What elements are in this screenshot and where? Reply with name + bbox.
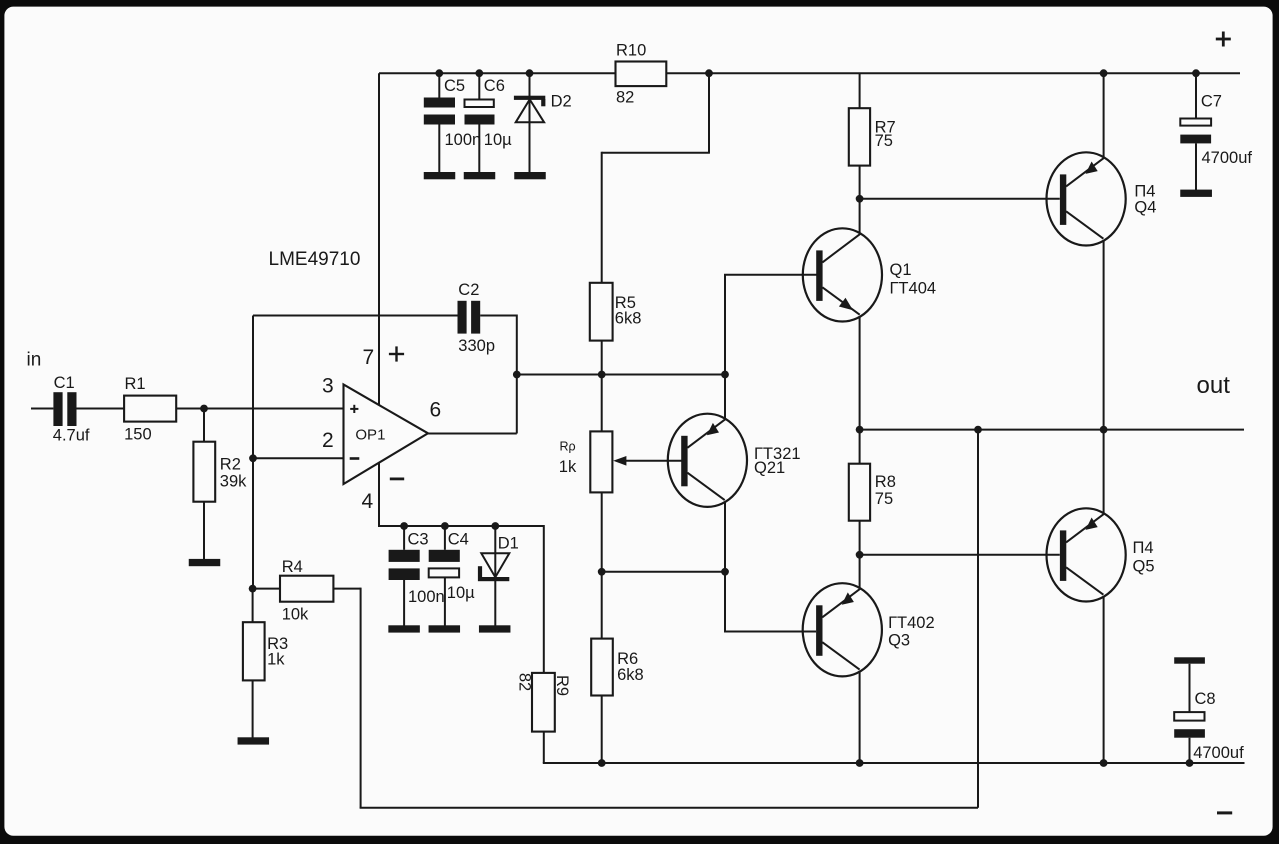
wire R3 to ground bbox=[252, 680, 254, 738]
wire rail to C5 bbox=[438, 73, 440, 97]
svg-text:C8: C8 bbox=[1195, 690, 1216, 708]
wire Q21 collector bbox=[724, 375, 726, 420]
svg-text:4.7uf: 4.7uf bbox=[53, 427, 90, 445]
capacitor C4 bbox=[429, 531, 475, 603]
capacitor C5 bbox=[424, 77, 481, 149]
node Rp bottom row left bbox=[598, 568, 606, 576]
svg-text:R10: R10 bbox=[616, 42, 646, 60]
resistor R2 bbox=[193, 442, 247, 502]
svg-text:R1: R1 bbox=[125, 375, 146, 393]
in label bbox=[27, 350, 42, 371]
svg-text:Q1: Q1 bbox=[890, 261, 912, 279]
svg-text:D1: D1 bbox=[498, 535, 519, 553]
svg-text:150: 150 bbox=[124, 426, 152, 444]
node Q21 collector junction bbox=[721, 371, 729, 379]
wire rail to R7 bbox=[859, 73, 861, 108]
ground below C4 bbox=[429, 625, 461, 632]
transistor Q1 bbox=[803, 228, 936, 321]
resistor R9 bbox=[516, 673, 572, 732]
svg-text:D2: D2 bbox=[551, 93, 572, 111]
wire rail branch to R5 bbox=[602, 73, 710, 283]
supply bar above C8 bbox=[1174, 657, 1205, 663]
ground below C7 bbox=[1180, 190, 1212, 197]
svg-text:C6: C6 bbox=[484, 77, 505, 95]
node Q4 out bbox=[1100, 426, 1108, 434]
wire node to R4 bbox=[253, 588, 280, 590]
svg-text:LME49710: LME49710 bbox=[269, 249, 361, 270]
svg-text:6k8: 6k8 bbox=[617, 666, 644, 684]
node C3 bbox=[400, 522, 408, 530]
wire bias row bbox=[602, 571, 725, 573]
svg-text:Q4: Q4 bbox=[1134, 199, 1156, 217]
svg-text:in: in bbox=[27, 350, 42, 371]
svg-text:7: 7 bbox=[363, 346, 375, 369]
transistor Q21 bbox=[668, 414, 801, 507]
wire rail to C7 bbox=[1195, 73, 1197, 118]
svg-text:1k: 1k bbox=[559, 458, 577, 476]
wire node to R2 bbox=[203, 409, 205, 442]
op-amp - input mark bbox=[350, 457, 360, 460]
ground below C6 bbox=[464, 172, 496, 179]
node Q1 emitter out bbox=[856, 426, 864, 434]
node R6 on negative rail bbox=[598, 759, 606, 767]
transistor Q3 bbox=[803, 583, 935, 676]
node R7 bottom bbox=[856, 195, 864, 203]
wire R5 to output node bbox=[601, 341, 603, 375]
node C7 on rail bbox=[1192, 69, 1200, 77]
wire Q21 collector to Q1 base bbox=[724, 275, 817, 375]
transistor Q5 bbox=[1047, 508, 1155, 601]
svg-text:ГТ404: ГТ404 bbox=[890, 280, 937, 298]
wire out line bbox=[860, 429, 1244, 431]
wire C8 to negative rail bbox=[1189, 738, 1191, 763]
wire positive rail right bbox=[666, 72, 1240, 74]
svg-text:ГТ402: ГТ402 bbox=[888, 614, 935, 632]
resistor R10 bbox=[616, 42, 667, 107]
pin 6 label bbox=[430, 399, 442, 422]
capacitor C8 bbox=[1174, 690, 1244, 762]
svg-text:100n: 100n bbox=[445, 131, 482, 149]
op-amp U1 label bbox=[269, 249, 361, 270]
wire pin4 supply bbox=[378, 463, 380, 527]
svg-text:OP1: OP1 bbox=[355, 427, 385, 444]
resistor R7 bbox=[849, 108, 896, 165]
wire pin6 output bbox=[428, 375, 517, 434]
node R1-R2 junction bbox=[200, 405, 208, 413]
ground below R3 bbox=[238, 737, 269, 744]
svg-text:75: 75 bbox=[875, 132, 893, 150]
wire to Q5 base bbox=[860, 554, 1060, 556]
resistor R3 bbox=[243, 622, 288, 680]
node R5 bottom bbox=[598, 371, 606, 379]
wire node to R3 bbox=[252, 589, 254, 623]
svg-text:R2: R2 bbox=[220, 456, 241, 474]
pin 2 label bbox=[322, 429, 334, 452]
potentiometer Rp bbox=[559, 431, 613, 492]
svg-text:out: out bbox=[1197, 372, 1231, 399]
svg-text:10µ: 10µ bbox=[484, 131, 512, 149]
capacitor C1 bbox=[53, 374, 90, 445]
wire R7 to Q1 bbox=[859, 166, 861, 234]
V- supply mark bbox=[390, 478, 404, 481]
node D1 bbox=[491, 522, 499, 530]
node bias row right bbox=[721, 568, 729, 576]
wire Q5 to negative rail bbox=[1103, 596, 1105, 763]
wire R9 to negative rail bbox=[543, 732, 1245, 763]
wire R7 node to Q4 base bbox=[860, 198, 1060, 200]
wire bar to C8 bbox=[1189, 664, 1191, 712]
svg-text:4700uf: 4700uf bbox=[1193, 744, 1244, 762]
resistor R6 bbox=[591, 639, 644, 696]
node output junction bbox=[513, 371, 521, 379]
svg-text:39k: 39k bbox=[220, 473, 247, 491]
wiper arrow Rp bbox=[613, 456, 683, 466]
wire R2 to ground bbox=[203, 502, 205, 560]
wire feedback column bbox=[252, 316, 254, 589]
capacitor C6 bbox=[465, 77, 513, 149]
svg-text:C1: C1 bbox=[54, 374, 75, 392]
svg-text:4700uf: 4700uf bbox=[1202, 149, 1253, 167]
wire input stub bbox=[31, 408, 53, 410]
node C4 bbox=[441, 522, 449, 530]
node rail branch bbox=[705, 69, 713, 77]
wire R1 to opamp pin3 bbox=[176, 408, 343, 410]
svg-text:3: 3 bbox=[322, 375, 334, 398]
pin 7 label bbox=[363, 346, 375, 369]
wire Q21 emitter bbox=[724, 502, 726, 572]
wire R6 to negative rail bbox=[601, 696, 603, 764]
wire to D1 bbox=[494, 526, 496, 627]
node C6 on rail bbox=[475, 69, 483, 77]
node R3-R4 junction bbox=[249, 585, 257, 593]
svg-text:C7: C7 bbox=[1201, 93, 1222, 111]
node Q3 on negative rail bbox=[856, 759, 864, 767]
svg-text:R4: R4 bbox=[282, 558, 303, 576]
wire node to R6 bbox=[601, 572, 603, 639]
wire pin4 rail bbox=[379, 525, 544, 527]
wire to C3 bbox=[403, 526, 405, 550]
op-amp OP1 bbox=[344, 385, 429, 485]
node C5 on rail bbox=[435, 69, 443, 77]
wire Q4 to Q5 bbox=[1103, 240, 1105, 513]
capacitor C3 bbox=[389, 531, 445, 607]
node feedback return top bbox=[974, 426, 982, 434]
svg-text:4: 4 bbox=[362, 490, 374, 513]
svg-text:C3: C3 bbox=[408, 531, 429, 549]
wire R4 to feedback return bbox=[333, 588, 978, 808]
svg-text:R8: R8 bbox=[875, 473, 896, 491]
wire C7 to ground bbox=[1195, 143, 1197, 190]
ground below C3 bbox=[388, 625, 420, 632]
svg-text:82: 82 bbox=[616, 89, 634, 107]
pin 4 label bbox=[362, 490, 374, 513]
svg-text:C2: C2 bbox=[458, 281, 479, 299]
svg-text:Rρ: Rρ bbox=[560, 440, 576, 454]
wire feedback return vertical bbox=[977, 430, 979, 808]
wire Q3 base link bbox=[724, 572, 816, 632]
minus terminal bbox=[1217, 811, 1232, 814]
wire C3 to ground bbox=[403, 580, 405, 627]
svg-text:82: 82 bbox=[516, 673, 534, 691]
wire Q3 emitter to rail bbox=[859, 671, 861, 763]
resistor R1 bbox=[124, 375, 176, 444]
plus terminal bbox=[1216, 32, 1231, 47]
node Q4 on rail bbox=[1100, 69, 1108, 77]
node Q5 on negative rail bbox=[1100, 759, 1108, 767]
wire rail corner to R9 bbox=[543, 525, 545, 673]
svg-text:2: 2 bbox=[322, 429, 334, 452]
svg-text:1k: 1k bbox=[267, 651, 285, 669]
svg-text:330p: 330p bbox=[458, 337, 495, 355]
resistor R8 bbox=[849, 464, 896, 521]
wire C4 to ground bbox=[444, 577, 446, 626]
wire rail to Q4 bbox=[1103, 73, 1105, 157]
ground below D2 bbox=[514, 172, 546, 179]
out label bbox=[1197, 372, 1231, 399]
wire C5 to ground bbox=[438, 125, 440, 174]
capacitor C7 bbox=[1180, 93, 1252, 168]
svg-text:Q3: Q3 bbox=[888, 632, 910, 650]
node pin2 junction bbox=[249, 454, 257, 462]
svg-text:75: 75 bbox=[875, 490, 893, 508]
svg-text:6k8: 6k8 bbox=[615, 310, 642, 328]
svg-text:10k: 10k bbox=[282, 606, 309, 624]
ground below C5 bbox=[424, 172, 456, 179]
zener diode D2 bbox=[514, 93, 572, 123]
svg-text:C4: C4 bbox=[448, 531, 469, 549]
wire C2 to output corner bbox=[480, 315, 517, 375]
wire positive rail left bbox=[379, 72, 616, 74]
wire Rp to lower node bbox=[601, 492, 603, 571]
svg-text:Q21: Q21 bbox=[754, 459, 785, 477]
wire output to R5 column bbox=[517, 374, 725, 376]
ground below D1 bbox=[479, 625, 511, 632]
wire R5 node to Rp bbox=[601, 375, 603, 432]
svg-text:Q5: Q5 bbox=[1133, 558, 1155, 576]
wire feedback upper bbox=[253, 315, 458, 317]
resistor R4 bbox=[280, 558, 333, 624]
wire pin2 to opamp bbox=[253, 457, 344, 459]
wire R8 to Q3 bbox=[859, 521, 861, 589]
pin 3 label bbox=[322, 375, 334, 398]
wire C1 to R1 bbox=[77, 408, 125, 410]
svg-text:10µ: 10µ bbox=[447, 584, 475, 602]
wire Q1 emitter to out node bbox=[859, 316, 861, 463]
wire C6 to ground bbox=[478, 125, 480, 174]
node Q5 base junction bbox=[856, 551, 864, 559]
node D2 on rail bbox=[526, 69, 534, 77]
capacitor C2 bbox=[458, 281, 496, 355]
op-amp + input mark bbox=[350, 405, 358, 413]
ground below R2 bbox=[189, 559, 221, 566]
wire rail to D2 bbox=[529, 73, 531, 173]
wire D1 to ground bbox=[494, 583, 496, 626]
node C8 on negative rail bbox=[1186, 759, 1194, 767]
svg-text:C5: C5 bbox=[444, 77, 465, 95]
svg-text:П4: П4 bbox=[1133, 539, 1154, 557]
transistor Q4 bbox=[1047, 152, 1157, 245]
wire rail to C6 bbox=[478, 73, 480, 99]
wire to C4 bbox=[444, 526, 446, 550]
wire pin7 supply bbox=[378, 73, 380, 405]
V+ supply mark bbox=[389, 346, 404, 361]
wire D2 to ground bbox=[529, 122, 531, 173]
svg-text:100n: 100n bbox=[408, 588, 445, 606]
svg-text:R9: R9 bbox=[553, 675, 571, 696]
resistor R5 bbox=[590, 283, 642, 341]
zener diode D1 bbox=[478, 535, 519, 582]
svg-text:6: 6 bbox=[430, 399, 442, 422]
